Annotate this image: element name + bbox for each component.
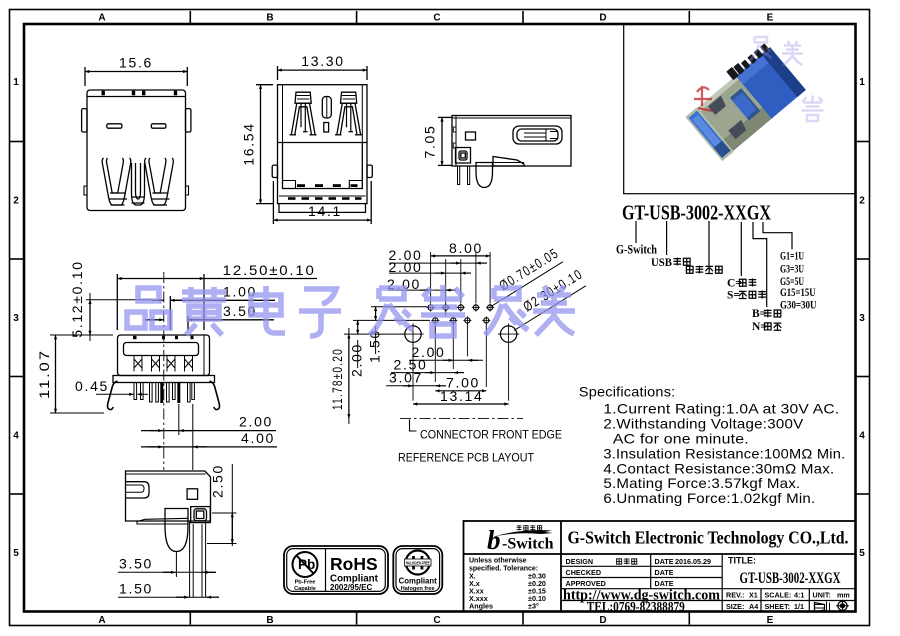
svg-text:2.50: 2.50 [210, 464, 226, 498]
svg-text:DESIGN: DESIGN [566, 557, 594, 566]
svg-text:B: B [266, 615, 273, 626]
svg-text:-Switch: -Switch [502, 536, 554, 553]
svg-text:AC for one minute.: AC for one minute. [613, 431, 749, 447]
svg-text:A: A [98, 13, 105, 24]
svg-text:Pb-Free: Pb-Free [295, 580, 316, 586]
svg-text:2.00: 2.00 [239, 414, 273, 430]
svg-text:G1=1U: G1=1U [780, 248, 804, 262]
svg-text:Specifications:: Specifications: [579, 383, 676, 399]
svg-text:2016.05.29: 2016.05.29 [675, 557, 711, 566]
svg-text:Pb: Pb [298, 557, 315, 572]
svg-text:1/1: 1/1 [794, 602, 804, 611]
svg-text:16.54: 16.54 [241, 122, 257, 166]
svg-text:2.Withstanding Voltage:300V: 2.Withstanding Voltage:300V [603, 416, 803, 432]
svg-text:1.50: 1.50 [119, 581, 153, 597]
svg-text:15.6: 15.6 [119, 55, 153, 71]
svg-text:CONNECTOR FRONT EDGE: CONNECTOR FRONT EDGE [420, 429, 562, 441]
svg-text:4:1: 4:1 [794, 590, 804, 599]
svg-text:3.50: 3.50 [119, 556, 153, 572]
svg-text:2: 2 [859, 196, 865, 207]
svg-text:REV.:: REV.: [726, 590, 745, 599]
svg-text:Halogen free: Halogen free [401, 586, 435, 592]
svg-text:E: E [767, 13, 774, 24]
svg-text:12.50±0.10: 12.50±0.10 [223, 262, 316, 278]
svg-text:SHEET:: SHEET: [765, 602, 791, 611]
svg-text:0.45: 0.45 [75, 378, 109, 394]
svg-text:3: 3 [859, 313, 865, 324]
svg-text:G30=30U: G30=30U [780, 297, 817, 311]
svg-text:13.30: 13.30 [301, 53, 345, 69]
svg-text:Unless otherwise: Unless otherwise [469, 558, 527, 565]
svg-text:1.Current Rating:1.0A at 30V A: 1.Current Rating:1.0A at 30V AC. [603, 400, 839, 416]
svg-text:5.12±0.10: 5.12±0.10 [69, 260, 85, 337]
svg-text:2.00: 2.00 [349, 343, 365, 377]
svg-text:2002/95/EC: 2002/95/EC [330, 583, 372, 592]
svg-text:REFERENCE PCB LAYOUT: REFERENCE PCB LAYOUT [398, 452, 534, 464]
svg-text:RoHS: RoHS [330, 554, 378, 574]
svg-text:mm: mm [837, 590, 850, 599]
svg-text:Angles: Angles [469, 602, 493, 611]
svg-text:1: 1 [859, 77, 865, 88]
svg-text:B: B [266, 13, 273, 24]
svg-text:A: A [98, 615, 105, 626]
svg-text:14.1: 14.1 [308, 203, 342, 219]
svg-text:4.00: 4.00 [241, 430, 275, 446]
svg-text:C: C [433, 615, 440, 626]
svg-text:TEL:0769-82388879: TEL:0769-82388879 [587, 599, 685, 614]
svg-text:X1: X1 [749, 590, 758, 599]
svg-text:±3°: ±3° [528, 602, 539, 611]
svg-text:6.Unmating Force:1.02kgf Min.: 6.Unmating Force:1.02kgf Min. [603, 490, 815, 506]
svg-text:11.78±0.20: 11.78±0.20 [329, 348, 345, 410]
svg-text:1: 1 [13, 77, 19, 88]
svg-text:D: D [599, 615, 606, 626]
svg-text:b: b [487, 525, 501, 555]
svg-text:5: 5 [859, 548, 865, 559]
svg-text:UNIT:: UNIT: [813, 590, 831, 599]
svg-text:3.07: 3.07 [389, 369, 423, 385]
svg-text:Compliant: Compliant [399, 577, 438, 586]
svg-text:4.Contact Resistance:30mΩ Max.: 4.Contact Resistance:30mΩ Max. [603, 460, 834, 476]
svg-text:5: 5 [13, 548, 19, 559]
svg-text:13.14: 13.14 [440, 388, 484, 404]
svg-text:SCALE:: SCALE: [765, 590, 792, 599]
svg-text:7.05: 7.05 [422, 124, 438, 158]
svg-text:DATE: DATE [655, 568, 674, 577]
svg-text:TITLE:: TITLE: [728, 556, 756, 566]
svg-text:G-Switch: G-Switch [616, 243, 657, 257]
svg-text:Capable: Capable [294, 586, 316, 592]
svg-text:GT-USB-3002-XXGX: GT-USB-3002-XXGX [622, 201, 771, 225]
svg-text:4: 4 [859, 431, 865, 442]
svg-text:USB: USB [651, 257, 672, 269]
svg-text:3: 3 [13, 313, 19, 324]
svg-text:E: E [767, 615, 774, 626]
svg-text:2: 2 [13, 196, 19, 207]
svg-text:CHECKED: CHECKED [566, 568, 602, 577]
svg-text:3.Insulation Resistance:100MΩ: 3.Insulation Resistance:100MΩ Min. [603, 445, 845, 461]
svg-text:SIZE:: SIZE: [726, 602, 744, 611]
svg-text:C: C [433, 13, 440, 24]
svg-text:DATE: DATE [655, 557, 674, 566]
svg-text:A4: A4 [749, 602, 758, 611]
svg-text:HALOGEN FREE: HALOGEN FREE [406, 560, 430, 565]
svg-text:11.07: 11.07 [36, 349, 52, 399]
svg-text:2.00: 2.00 [389, 259, 423, 275]
svg-text:5.Mating Force:3.57kgf Max.: 5.Mating Force:3.57kgf Max. [603, 475, 800, 491]
svg-text:GT-USB-3002-XXGX: GT-USB-3002-XXGX [740, 570, 842, 587]
svg-text:S=: S= [727, 289, 740, 301]
svg-text:4: 4 [13, 431, 19, 442]
svg-text:G-Switch Electronic Technology: G-Switch Electronic Technology CO.,Ltd. [568, 528, 849, 548]
svg-text:D: D [599, 13, 606, 24]
svg-text:8.00: 8.00 [449, 240, 483, 256]
